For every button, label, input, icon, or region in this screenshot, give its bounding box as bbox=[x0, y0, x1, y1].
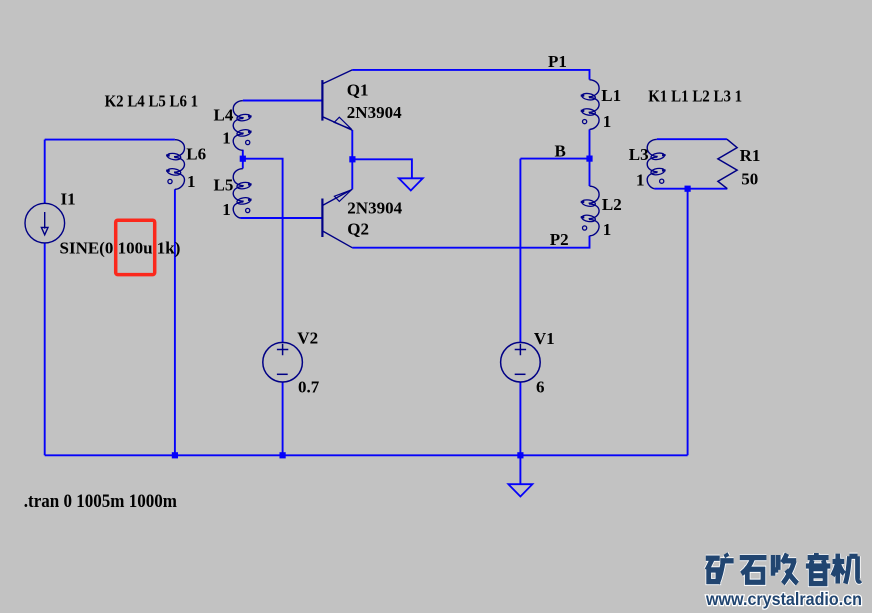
junction R1 bottom bbox=[685, 186, 691, 192]
svg-text:L3: L3 bbox=[629, 145, 649, 164]
inductor L1 bbox=[581, 80, 599, 130]
transistor Q1 bbox=[322, 70, 352, 130]
svg-text:K2 L4 L5 L6 1: K2 L4 L5 L6 1 bbox=[105, 92, 199, 110]
svg-text:K1 L1 L2 L3 1: K1 L1 L2 L3 1 bbox=[648, 87, 742, 105]
current source I1 bbox=[25, 203, 65, 243]
svg-text:www.crystalradio.cn: www.crystalradio.cn bbox=[705, 589, 862, 609]
inductor L4 bbox=[233, 101, 251, 151]
voltage source V1 bbox=[501, 342, 541, 382]
svg-text:V2: V2 bbox=[297, 329, 318, 348]
svg-text:L1: L1 bbox=[601, 86, 621, 105]
wire V2 bottom bbox=[282, 382, 284, 455]
wire V1 bottom bbox=[519, 382, 521, 455]
junction V1 rail bbox=[517, 452, 523, 458]
wire left vertical upper bbox=[44, 140, 46, 204]
svg-text:1: 1 bbox=[222, 129, 231, 148]
char shi bbox=[740, 558, 767, 583]
svg-text:V1: V1 bbox=[534, 329, 555, 348]
svg-text:L6: L6 bbox=[186, 144, 206, 163]
inductor L2 bbox=[581, 186, 599, 236]
svg-text:2N3904: 2N3904 bbox=[347, 199, 402, 218]
wire L4 bottom to L5 top bbox=[242, 150, 244, 169]
watermark chinese characters bbox=[706, 553, 861, 584]
highlight red rectangle bbox=[116, 220, 155, 274]
wire node B to V1 bbox=[519, 159, 521, 343]
svg-text:1: 1 bbox=[603, 220, 612, 239]
svg-text:50: 50 bbox=[741, 170, 758, 189]
wire P1 rail bbox=[352, 70, 589, 80]
voltage source V2 bbox=[263, 342, 303, 382]
svg-text:Q1: Q1 bbox=[347, 80, 369, 99]
junction L4-L5 center tap bbox=[240, 156, 246, 162]
wire emitters to ground bbox=[352, 159, 412, 178]
junction L6 rail bbox=[172, 452, 178, 458]
transistor Q2 bbox=[322, 189, 352, 247]
svg-text:L4: L4 bbox=[214, 106, 234, 125]
wire center tap to V2 bbox=[243, 159, 283, 343]
wire right riser R1 to rail bbox=[687, 189, 689, 456]
svg-text:.tran 0 1005m 1000m: .tran 0 1005m 1000m bbox=[24, 490, 177, 511]
char shou bbox=[773, 554, 797, 584]
svg-text:P1: P1 bbox=[548, 52, 567, 71]
K2 coupling directive bbox=[105, 92, 199, 110]
resistor R1 bbox=[718, 139, 737, 189]
wire node B horizontal bbox=[520, 158, 589, 160]
char ji bbox=[833, 554, 861, 584]
K1 coupling directive bbox=[648, 87, 742, 105]
svg-text:1: 1 bbox=[636, 170, 645, 189]
wire L3 top to R1 bbox=[657, 138, 727, 140]
svg-text:6: 6 bbox=[536, 378, 545, 397]
svg-text:2N3904: 2N3904 bbox=[347, 103, 402, 122]
svg-text:0.7: 0.7 bbox=[298, 378, 320, 397]
wire left vertical lower bbox=[44, 243, 46, 455]
wire L1 bottom to L2 top bbox=[589, 129, 591, 186]
wire P2 from Q2 collector to L2 bottom bbox=[352, 236, 589, 248]
svg-text:R1: R1 bbox=[740, 146, 761, 165]
svg-text:I1: I1 bbox=[61, 189, 76, 208]
svg-text:1: 1 bbox=[222, 200, 231, 219]
svg-text:1: 1 bbox=[603, 112, 612, 131]
inductor L3 bbox=[647, 139, 665, 188]
svg-text:B: B bbox=[555, 141, 566, 160]
wire L6 bottom bbox=[174, 189, 176, 455]
wire emitter column bbox=[351, 130, 353, 189]
svg-text:P2: P2 bbox=[550, 230, 569, 249]
wire L4 top to Q1 base bbox=[243, 100, 323, 102]
wire L3 bottom to R1 bbox=[654, 188, 727, 190]
char yin bbox=[806, 553, 830, 584]
wire L5 bottom to Q2 base bbox=[240, 217, 322, 219]
svg-text:L2: L2 bbox=[602, 195, 622, 214]
tran directive bbox=[24, 490, 177, 511]
wire ground stub bbox=[519, 455, 521, 484]
junction emitters bbox=[349, 156, 355, 162]
svg-text:1: 1 bbox=[187, 172, 196, 191]
svg-text:L5: L5 bbox=[214, 176, 234, 195]
svg-text:Q2: Q2 bbox=[347, 220, 369, 239]
wire bottom rail bbox=[45, 454, 688, 456]
inductor L5 bbox=[233, 169, 251, 218]
wire top-left horizontal bbox=[45, 139, 175, 141]
junction V2 rail bbox=[280, 452, 286, 458]
ground at bottom rail bbox=[508, 484, 532, 496]
ground at emitters bbox=[399, 178, 423, 190]
char kuang bbox=[706, 554, 734, 584]
inductor L6 bbox=[166, 140, 184, 190]
junction node B bbox=[586, 156, 592, 162]
svg-text:SINE(0 100u 1k): SINE(0 100u 1k) bbox=[60, 239, 181, 258]
